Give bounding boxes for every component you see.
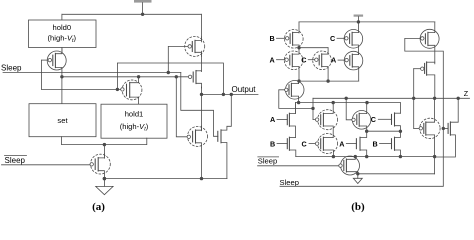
- transistor Q5b (dashed circle): [315, 103, 337, 138]
- label B (row4, left): [270, 139, 275, 148]
- ground symbol (a): [96, 177, 113, 195]
- label Z: [464, 89, 469, 98]
- label C (row2, middle): [301, 55, 306, 64]
- transistor Q1b (dashed circle, input A): [277, 48, 303, 81]
- block hold0: [29, 20, 97, 48]
- transistor QB (dashed circle, input B): [277, 30, 304, 49]
- transistor Q11b (NMOS, input B right): [380, 131, 401, 156]
- svg-text:Z: Z: [464, 89, 469, 98]
- svg-text:hold0: hold0: [53, 23, 72, 32]
- wire Z to Q5b gate: [313, 98, 315, 119]
- svg-text:Sleep: Sleep: [258, 157, 277, 166]
- svg-text:(a): (a): [92, 201, 105, 213]
- label Sleep-bar (a, lower): [5, 156, 27, 165]
- wire internal node branch to Q4 gate: [176, 77, 187, 137]
- svg-text:hold1: hold1: [125, 110, 144, 119]
- svg-text:Output: Output: [232, 85, 257, 94]
- wire Sleep-bar net (a): [2, 164, 90, 166]
- wire top net to QB drain: [298, 22, 300, 33]
- transistor Q15b (output PMOS): [425, 62, 435, 98]
- transistor Q0 (dashed circle PMOS): [185, 36, 205, 56]
- label Output: [232, 85, 257, 94]
- label C (row1): [330, 34, 335, 43]
- wire Sleep net (b): [280, 38, 448, 186]
- label A (row2, left): [270, 55, 275, 64]
- wire feedback net from Output: [42, 60, 224, 94]
- wire VDD top net (b): [299, 20, 435, 23]
- wire ground rail (a): [103, 177, 227, 180]
- wire Q4b gate net: [279, 90, 315, 110]
- label Sleep (b): [280, 178, 299, 187]
- transistor Q6b (solid circle): [352, 103, 371, 132]
- wire gate of Q0 to Sleep: [168, 46, 188, 72]
- power VDD rail symbol (b): [354, 15, 364, 22]
- label B (row1): [270, 34, 275, 43]
- transistor QC (solid circle, input C): [337, 22, 363, 55]
- transistor Q5 (NMOS): [218, 94, 232, 178]
- transistor Q14b (solid circle sleep PMOS): [421, 22, 435, 64]
- transistor Q3b (solid circle, input A): [338, 51, 363, 81]
- wire series node Q6b/Q10b: [365, 130, 402, 134]
- wire Z feedback to Q15b/Q16b gates: [414, 69, 421, 129]
- wire set/hold1 bottom net: [62, 137, 147, 159]
- block hold1: [101, 104, 167, 138]
- label Sleep (a, upper): [1, 63, 22, 72]
- transistor Q9b (dashed circle, input C): [309, 134, 338, 157]
- transistor Q1 (PMOS, solid circle): [42, 49, 67, 72]
- wire row2 sources net: [297, 79, 358, 82]
- caption (b): [351, 201, 365, 213]
- transistor Q8b (NMOS, input B): [277, 137, 296, 156]
- svg-text:B: B: [270, 139, 275, 148]
- svg-text:set: set: [57, 116, 68, 125]
- wire Sleep net (a): [3, 71, 218, 137]
- wire pull-up/pull-down node line (b): [295, 101, 400, 114]
- svg-text:A: A: [270, 55, 275, 64]
- label C (row3, right): [371, 115, 376, 124]
- svg-text:Sleep: Sleep: [5, 156, 26, 165]
- svg-text:B: B: [373, 139, 378, 148]
- svg-text:Sleep: Sleep: [280, 178, 299, 187]
- node Z output line: [313, 97, 470, 100]
- svg-text:A: A: [270, 115, 275, 124]
- wire Q3 source / Output stem: [200, 87, 203, 131]
- wire hold0 to Q1 drain: [61, 48, 63, 54]
- label B (row4, right): [373, 139, 378, 148]
- node Output line: [202, 93, 259, 96]
- power VDD rail symbol (a): [134, 0, 152, 14]
- transistor Q2 (dashed circle): [121, 77, 142, 104]
- svg-text:B: B: [270, 34, 275, 43]
- transistor Q4b (solid circle keeper PMOS): [285, 81, 304, 103]
- transistor Q7b (NMOS, input A): [277, 103, 295, 138]
- bubble Q15b gate: [421, 67, 424, 70]
- wire Sleep-bar net (b): [258, 165, 339, 167]
- transistor Q17b (sleep NMOS): [435, 98, 459, 157]
- svg-text:C: C: [302, 139, 307, 148]
- svg-text:A: A: [339, 139, 344, 148]
- svg-text:Sleep: Sleep: [1, 63, 22, 72]
- label A (row2, right): [331, 55, 336, 64]
- wire QB source to Q2b drain: [297, 46, 328, 54]
- label A (row4): [339, 139, 344, 148]
- transistor Q2b (dashed circle, input C): [308, 51, 331, 81]
- block set: [29, 104, 96, 137]
- wire Q1 source / internal node stem: [60, 71, 63, 104]
- wire Q0 source to Q3 drain: [200, 51, 202, 71]
- circle of Q14b: [420, 29, 439, 48]
- wire internal node to Q3 gate: [62, 75, 188, 78]
- caption (a): [92, 201, 105, 213]
- svg-text:(b): (b): [351, 201, 365, 213]
- transistor Q6 (dashed circle NMOS): [90, 154, 110, 179]
- transistor Q4 (dashed circle NMOS): [187, 126, 207, 179]
- wire virtual ground rail (b): [296, 155, 437, 158]
- transistor Q16b (dashed circle NMOS): [419, 98, 440, 174]
- svg-text:C: C: [330, 34, 335, 43]
- label C (row4): [302, 139, 307, 148]
- label A (row3): [270, 115, 275, 124]
- transistor Q3 (PMOS): [188, 71, 201, 89]
- transistor Q12b (NMOS, input C right): [378, 113, 400, 131]
- wire VDD top net (a): [62, 13, 202, 42]
- wire real ground rail (b): [358, 173, 435, 175]
- svg-text:C: C: [371, 115, 376, 124]
- wire Z to Q6b gate: [346, 98, 352, 120]
- svg-text:C: C: [301, 55, 306, 64]
- transistor Q10b (NMOS, input A): [346, 131, 366, 156]
- svg-text:A: A: [331, 55, 336, 64]
- label Sleep-bar (b): [258, 157, 279, 166]
- transistor Q13b (solid circle sleep NMOS): [339, 156, 360, 175]
- ground symbol (b): [353, 172, 362, 183]
